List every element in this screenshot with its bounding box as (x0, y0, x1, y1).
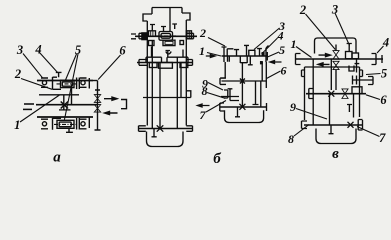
leader b1 (207, 53, 221, 57)
fork cross on shaft4 (157, 125, 164, 131)
vertical w2 (330, 59, 332, 90)
pin above gear F (347, 44, 352, 52)
clutch hourglass v lower (333, 61, 339, 69)
clutch column (95, 81, 101, 131)
leader b5 (268, 52, 280, 57)
leader 1 (20, 95, 60, 122)
gear B3 under shaft2 (180, 63, 188, 68)
long vertical right1 (176, 57, 178, 128)
gear B2 under shaft2 (159, 63, 173, 69)
shaft I upper (37, 80, 93, 82)
bearing upper-right ticks (80, 78, 87, 87)
input coupling dash upper (24, 103, 34, 105)
shaft4 right bracket (358, 120, 362, 131)
leader b7 (206, 101, 226, 113)
shaft 3 end bend (187, 91, 191, 98)
gear pin D (257, 49, 262, 56)
shifter pin C (244, 45, 249, 56)
gear under hub (163, 40, 175, 45)
svg-text:5: 5 (279, 43, 285, 57)
vertical v4 (241, 81, 243, 107)
svg-text:9: 9 (290, 100, 296, 114)
gear corner above shaft I (227, 49, 233, 56)
gear A1 on shaft1 (142, 33, 148, 41)
gear block upper left wall (53, 77, 62, 90)
svg-text:3: 3 (16, 43, 23, 57)
shaft 3 v (306, 93, 366, 95)
leader b2 (208, 38, 225, 47)
lower right gear edge (88, 118, 90, 129)
gear bars upper right (77, 78, 80, 90)
shaft II left end (220, 78, 226, 84)
left wall boss (302, 70, 305, 77)
gear A2 on shaft1 (149, 31, 156, 37)
shaft I corner to clutch column (93, 80, 98, 82)
hourglass on shaft3 (342, 89, 348, 99)
leader 6 (98, 55, 120, 80)
housing cap top (152, 8, 182, 15)
gear E line (221, 96, 239, 98)
vertical gear web left (63, 95, 65, 110)
gear hub center shaft1 (159, 32, 173, 41)
leader v7 (357, 127, 380, 137)
svg-text:5: 5 (75, 43, 81, 57)
svg-text:4: 4 (34, 43, 41, 57)
arrow back v (318, 63, 330, 66)
vertical gear web right (71, 86, 73, 105)
right wall boss (360, 70, 363, 77)
gear B1 under shaft2 (149, 63, 157, 68)
fork cross v shaft3 (328, 91, 334, 97)
gear lower sliding block (57, 120, 74, 128)
shaft III side (220, 106, 267, 108)
output flange bracket (121, 100, 127, 109)
shaft4 left bracket (302, 121, 308, 129)
vertical w4 (353, 94, 355, 118)
output arrow left b (198, 104, 210, 107)
leader b4 (262, 38, 278, 54)
pin below shaft III (235, 107, 240, 117)
long vertical mid (159, 63, 161, 129)
gear block lower left wall (53, 118, 62, 130)
shaft II middle (36, 104, 98, 106)
gear small below-right shaft1 (180, 41, 184, 45)
shaft1 right bracket inner (372, 54, 377, 65)
bearing lower-right ticks (80, 119, 87, 129)
svg-text:7: 7 (200, 108, 207, 122)
shaft III left end (220, 103, 224, 111)
shaft2 upper line segs (146, 57, 188, 62)
leader b8 (207, 93, 225, 99)
right end tick shaft I (266, 52, 268, 61)
pin E below (248, 56, 253, 65)
stub right bracket (368, 77, 373, 85)
bearing 3 upper-left ticks (41, 78, 48, 87)
leader 2 (21, 79, 52, 90)
arrow fwd v (319, 54, 331, 57)
gear 5 upper sliding block (61, 80, 75, 87)
svg-text:8: 8 (202, 84, 208, 98)
long vertical left (151, 40, 153, 129)
svg-text:1: 1 (199, 44, 205, 58)
control rod from cap (169, 8, 171, 32)
bearing staple below (240, 56, 247, 63)
short line under shaft II (59, 109, 71, 111)
pin in pan v (329, 125, 334, 134)
vertical v5 (260, 81, 262, 107)
bearing boss right shaft2 (186, 60, 192, 66)
freewheel 6 upper hourglass (94, 95, 100, 103)
svg-text:6: 6 (380, 93, 387, 107)
axis dash-dot b1 (156, 35, 176, 37)
vertical w1 (312, 59, 314, 125)
arrow in left (105, 111, 118, 114)
pin into pan (152, 129, 157, 137)
housing right ear (182, 13, 190, 20)
housing right wall (185, 20, 187, 126)
shaft I right end (266, 46, 269, 63)
input arrow b (206, 55, 215, 58)
leader 4 (40, 53, 58, 73)
housing left ear (143, 14, 152, 21)
shaft I left end (222, 47, 227, 63)
mid bracket (224, 90, 228, 98)
oil pan (147, 132, 184, 147)
bearing right shaft1 (186, 31, 191, 39)
svg-text:2: 2 (14, 67, 21, 81)
gear blob above (262, 52, 265, 55)
axis dash-dot upper (57, 83, 78, 85)
svg-text:2: 2 (199, 26, 206, 40)
svg-text:в: в (332, 146, 339, 162)
bracket above shaft3 (352, 87, 362, 93)
clutch column v (335, 45, 337, 91)
axis dash-dot lower (54, 123, 78, 125)
pan v (316, 129, 356, 144)
svg-text:1: 1 (14, 118, 20, 132)
bearing boss left shaft4 (139, 126, 146, 132)
freewheel lower hourglass (94, 105, 100, 113)
leader v9 (296, 109, 327, 120)
shaft 1 (b front) (135, 35, 197, 37)
leader v4 (377, 46, 384, 53)
bearing upper-right ball (81, 81, 85, 85)
gear staple above (249, 50, 255, 56)
shaft1 right bracket outer (381, 55, 383, 63)
fork cross side view (239, 104, 245, 110)
stub bearing bars (353, 76, 357, 85)
svg-text:2: 2 (299, 3, 306, 17)
vertical v6 (253, 81, 259, 105)
svg-text:1: 1 (291, 37, 297, 51)
clutch hourglass v upper (333, 51, 339, 60)
housing cap v (315, 38, 357, 54)
leader 3 (23, 54, 43, 78)
bearing boss left shaft2 (139, 60, 147, 66)
shaft 3 line (b front) (143, 97, 191, 99)
stem below gear F (355, 59, 360, 72)
svg-text:6: 6 (119, 44, 126, 58)
shaft 1 v (295, 58, 383, 60)
bearing 3 upper-left ball (42, 81, 46, 85)
leader b9 (208, 83, 223, 91)
shaft 4 v (304, 124, 363, 126)
bearing cup shaft2 (166, 52, 171, 55)
leader v8 (294, 125, 309, 137)
right out arrow b (270, 61, 282, 64)
gear F2 on shaft1 v (352, 53, 359, 59)
bearing boss left shaft1 (139, 33, 147, 39)
vertical w3 (329, 94, 331, 125)
vertical v1 (221, 62, 225, 78)
gear F1 on shaft1 v (346, 52, 353, 59)
countershaft line A (39, 94, 79, 96)
gear pin B (234, 50, 239, 56)
svg-text:4: 4 (277, 28, 284, 42)
gear blob below (260, 61, 262, 64)
leader v2 (306, 14, 336, 50)
svg-text:3: 3 (331, 3, 338, 17)
bearing lower-left ticks (41, 119, 48, 129)
shaft1 left end bracket (296, 54, 301, 65)
leader 5 to lower gear (64, 54, 78, 120)
svg-text:7: 7 (379, 131, 386, 145)
shaft I side (222, 55, 268, 57)
cup below gear F (349, 66, 354, 72)
svg-text:6: 6 (281, 64, 287, 78)
bearing lower-right ball (81, 122, 85, 126)
input dashes (131, 34, 136, 39)
shaft II right end (265, 62, 267, 88)
leader v1 (296, 47, 312, 58)
shifter pin lower (66, 128, 73, 132)
shaft III lower (37, 116, 93, 118)
svg-text:4: 4 (382, 35, 389, 49)
fork cross marker on shaft II (61, 102, 68, 109)
housing box top (305, 66, 360, 68)
bearing 1 lower-left ball (42, 122, 46, 126)
svg-text:8: 8 (288, 132, 294, 146)
gear small below-left shaft1 (149, 41, 155, 46)
arrow out right (104, 97, 117, 100)
gear bars lower right (77, 118, 80, 130)
stub shaft v (352, 79, 373, 81)
long vertical right2 (180, 63, 182, 98)
shaft3 left bracket (309, 89, 313, 99)
bearing boss right shaft4 (186, 126, 192, 132)
input coupling dash lower (23, 108, 32, 110)
housing left wall (146, 21, 148, 126)
rod pin ticks (150, 24, 177, 31)
upper right gear edge (88, 78, 90, 89)
svg-text:5: 5 (381, 67, 387, 81)
ticks below left (228, 56, 230, 62)
leader v3 (335, 13, 350, 46)
fork cross on shaft II side (240, 79, 245, 84)
leader v5 (366, 74, 381, 75)
shaft III right end (266, 103, 268, 111)
pan side view (225, 110, 264, 122)
shaft II side (222, 80, 267, 82)
svg-text:а: а (53, 150, 61, 166)
leader 5 to upper gear (66, 54, 77, 80)
housing right wall v (359, 67, 361, 117)
bearing boss right shaft1 (186, 33, 193, 39)
vertical v2 (241, 63, 243, 81)
shifter pin 4 upper (56, 72, 62, 77)
vertical w5 T (347, 105, 352, 113)
gear E stem (228, 89, 239, 101)
shaft 2 (b front) (137, 62, 192, 64)
housing left wall v (304, 67, 306, 120)
leader b3 (254, 28, 280, 50)
shaft2 pins (152, 47, 184, 58)
leader b6 (267, 71, 281, 79)
svg-text:б: б (213, 151, 221, 167)
shaft 4 (b front) (138, 128, 193, 130)
leader v6 (366, 95, 380, 100)
fork cross v shaft4 (348, 122, 354, 128)
vertical v3 (261, 62, 263, 81)
